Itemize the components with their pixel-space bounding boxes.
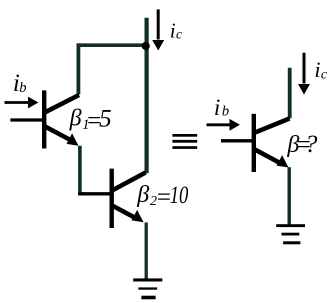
transistor Q1 base lead: [10, 118, 44, 121]
transistor Q2 base lead (from Q1 emitter): [78, 192, 111, 195]
current arrow i_b (right): [207, 123, 232, 126]
current arrow i_c (left): [157, 9, 160, 39]
ground (right): [276, 224, 305, 227]
svg-text:β: β: [136, 182, 149, 208]
svg-text:?: ?: [305, 131, 318, 158]
transistor Q1 collector diagonal: [45, 95, 80, 113]
svg-text:c: c: [176, 27, 182, 42]
svg-text:5: 5: [99, 106, 112, 133]
current arrow i_c (right): [303, 53, 306, 84]
transistor Q3 base lead: [221, 139, 254, 142]
wire: Q2 emitter to ground: [145, 223, 148, 280]
ground (left): [133, 278, 162, 281]
svg-text:i: i: [314, 57, 320, 82]
transistor Q3 (equivalent) base bar: [252, 114, 256, 172]
wire: right transistor emitter to ground: [288, 167, 291, 225]
svg-text:c: c: [321, 67, 328, 82]
wire: top horizontal from Q1 collector to main vertical: [77, 43, 147, 47]
svg-text:i: i: [214, 95, 220, 120]
wire: left vertical upper (Q1 collector riser): [77, 43, 81, 94]
transistor Q2 base bar: [109, 169, 113, 228]
transistor Q2 emitter diagonal with arrow: [111, 205, 135, 218]
svg-text:β: β: [69, 106, 82, 132]
equivalence symbol: [172, 134, 197, 137]
wire: left vertical lower (Q1 emitter drop): [78, 146, 82, 196]
svg-text:b: b: [222, 103, 229, 119]
svg-text:b: b: [19, 80, 26, 96]
transistor Q3 collector diagonal: [255, 119, 290, 133]
svg-text:10: 10: [170, 182, 189, 209]
node: junction dot on collector line: [142, 42, 150, 50]
current arrow i_b (left): [5, 101, 30, 104]
transistor Q3 emitter diagonal with arrow: [255, 150, 280, 163]
svg-text:i: i: [170, 19, 176, 43]
transistor Q1 emitter diagonal with arrow: [45, 126, 70, 139]
wire: main collector vertical (top to Q2 collector): [145, 18, 149, 173]
transistor Q1 base bar: [42, 90, 46, 148]
transistor Q2 collector diagonal: [112, 173, 146, 191]
wire: right transistor collector vertical: [288, 68, 292, 119]
